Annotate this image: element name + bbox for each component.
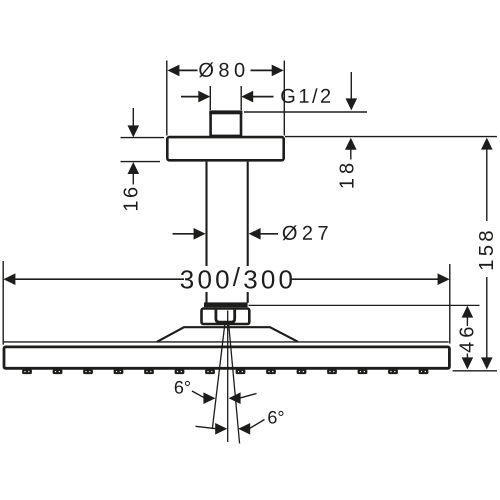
dimension 46 arrow down — [462, 357, 474, 369]
shower pipe left wall lower segment — [205, 292, 207, 303]
dimension 18 upper arrow (down) — [346, 98, 358, 110]
ball joint inner piece — [216, 310, 235, 323]
dimension Ø27 arrow left — [194, 228, 206, 240]
svg-text:158: 158 — [475, 227, 498, 271]
dimension 16 upper arrow tail — [132, 108, 134, 127]
dimension 300/300 extension line right — [449, 264, 451, 344]
ceiling flange plate — [167, 137, 283, 160]
spray left angle line — [212, 321, 225, 429]
bottom reference line right — [453, 370, 497, 372]
dimension 300/300 arrow right — [438, 273, 450, 285]
dimension Ø80 arrow left — [167, 65, 179, 77]
spray centre line — [227, 311, 229, 443]
dimension 158 arrow up — [481, 138, 493, 150]
pipe nut bar — [204, 302, 248, 307]
dimension 16 bottom tick — [121, 161, 161, 163]
spray angle lower arrow right tail — [249, 420, 265, 429]
spray angle lower arrow left tail — [196, 426, 218, 429]
dimension 300/300 arrow left — [3, 273, 15, 285]
dimension 16 lower arrow (up) — [128, 162, 140, 174]
dimension 46 arrow up — [462, 306, 474, 318]
spray angle upper arrow left — [203, 392, 215, 404]
dimension G1/2 extension line right — [240, 86, 242, 110]
dimension 46 line upper segment — [466, 317, 468, 326]
dimension G1/2 arrow left — [198, 91, 210, 103]
dimension 16 upper arrow (down) — [128, 125, 140, 137]
spray angle lower arrow right — [238, 423, 250, 435]
dimension Ø80 arrow right — [272, 65, 284, 77]
svg-text:Ø80: Ø80 — [198, 60, 249, 82]
dimension 16 top tick — [121, 137, 165, 139]
dimension Ø27 arrow right tail — [259, 233, 278, 235]
spray angle lower arrow left — [215, 423, 227, 435]
threaded stub — [211, 112, 241, 135]
nozzle strip — [22, 369, 428, 374]
dimension 18 lower arrow tail — [350, 149, 352, 160]
shower pipe left wall upper segment — [205, 162, 207, 266]
dimension G1/2 arrow right tail — [252, 96, 274, 98]
spray angle upper arrow right tail — [239, 394, 256, 399]
dimension 158 arrow down — [481, 357, 493, 369]
dimension 158 line lower segment — [486, 277, 488, 359]
dimension G1/2 extension line left — [209, 86, 211, 110]
head top rim line — [3, 341, 449, 343]
svg-text:G1/2: G1/2 — [280, 86, 333, 108]
dimension 16 lower arrow tail — [132, 173, 134, 185]
dimension Ø80 extension line left — [166, 61, 168, 136]
nozzle dots — [24, 371, 426, 372]
dimension G1/2 arrow right — [241, 91, 253, 103]
shower head slab — [4, 347, 449, 368]
dimension 18 lower arrow (up) — [345, 138, 357, 150]
dimension 300/300 line right segment — [290, 278, 440, 280]
dimension Ø27 arrow left tail — [173, 233, 196, 235]
dimension Ø80 extension line right — [283, 61, 285, 136]
spray right angle line — [228, 321, 239, 444]
svg-text:16: 16 — [121, 184, 143, 211]
stub top reference tick (18 dim) — [244, 111, 367, 113]
dimension 46 reference line — [249, 304, 480, 306]
svg-text:6°: 6° — [174, 377, 191, 397]
dimension Ø27 arrow right — [249, 228, 261, 240]
dimension 46 line lower segment — [466, 354, 468, 359]
spray angle upper arrow left tail — [192, 391, 205, 398]
dimension G1/2 arrow left tail — [181, 96, 200, 98]
ceiling reference line — [285, 136, 497, 138]
spray angle upper arrow right — [229, 392, 241, 404]
svg-text:18: 18 — [337, 159, 359, 189]
dimension 300/300 line left segment — [14, 278, 184, 280]
shower pipe right wall lower segment — [247, 292, 249, 303]
shower pipe right wall upper segment — [247, 162, 249, 266]
dimension Ø80 line right segment — [251, 69, 274, 71]
threaded stub top bar — [209, 110, 242, 114]
dimension 158 line upper segment — [486, 148, 488, 221]
svg-text:6°: 6° — [267, 407, 284, 427]
ball joint housing — [202, 309, 250, 325]
cone shoulder — [157, 327, 298, 342]
dimension 300/300 extension line left — [2, 261, 4, 345]
dimension Ø80 line left segment — [178, 69, 198, 71]
svg-text:Ø27: Ø27 — [282, 223, 333, 245]
dimension 18 upper arrow tail — [350, 72, 352, 100]
svg-text:300/300: 300/300 — [180, 262, 296, 295]
svg-text:46: 46 — [456, 323, 478, 353]
